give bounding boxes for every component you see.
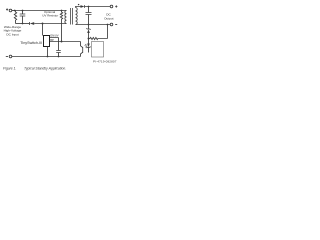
LED emission arrows bbox=[85, 44, 87, 47]
transformer T1 secondary winding bbox=[76, 8, 78, 25]
svg-text:UV Resistor: UV Resistor bbox=[42, 13, 58, 17]
node junction UV on EN wire bbox=[61, 41, 63, 43]
diode D2 output rectifier bbox=[81, 5, 85, 8]
transformer polarity dot bbox=[78, 4, 79, 5]
capacitor C2 output bbox=[86, 7, 92, 25]
node junction bbox=[22, 10, 24, 12]
label TinySwitch bbox=[20, 41, 42, 45]
minus sign input bbox=[6, 56, 8, 58]
node junction feedback bbox=[88, 38, 90, 40]
label DC output bbox=[104, 13, 113, 21]
wire bbox=[12, 10, 14, 12]
node junction drain tap bbox=[42, 23, 44, 25]
label EN/UV pin bbox=[50, 34, 58, 38]
output - terminal bbox=[110, 23, 113, 26]
label optional UV resistor bbox=[42, 10, 58, 17]
node junction bbox=[88, 24, 90, 26]
capacitor C3 bypass bbox=[56, 51, 61, 57]
svg-text:Output: Output bbox=[104, 16, 113, 20]
node junction bbox=[47, 56, 49, 58]
svg-text:TinySwitch-III: TinySwitch-III bbox=[20, 41, 42, 45]
wire top rail bbox=[14, 10, 66, 12]
node junction UV resistor top bbox=[61, 10, 63, 12]
node junction bbox=[107, 24, 109, 26]
node junction bbox=[22, 23, 24, 25]
plus sign output bbox=[115, 5, 117, 7]
node junction bbox=[88, 6, 90, 8]
optocoupler U2 box bbox=[92, 42, 104, 58]
resistor R1 clamp bbox=[14, 11, 16, 24]
wire feedback to minus out bbox=[107, 25, 109, 39]
node junction bbox=[14, 10, 16, 12]
wire BP pin bbox=[50, 38, 59, 51]
wire bottom rail bbox=[12, 56, 81, 58]
wire to D pin bbox=[42, 24, 44, 36]
svg-text:DC Input: DC Input bbox=[6, 32, 18, 36]
input + terminal bbox=[9, 9, 12, 12]
wire EN/UV net bbox=[50, 41, 81, 43]
label PI number bbox=[93, 59, 117, 63]
svg-text:PI-4719-082807: PI-4719-082807 bbox=[93, 59, 117, 63]
resistor R3 feedback bbox=[89, 37, 108, 39]
capacitor C1 clamp bbox=[20, 11, 26, 24]
transformer T1 core bbox=[71, 8, 73, 25]
wire secondary top bbox=[76, 7, 81, 8]
zener VR1 bbox=[86, 25, 90, 39]
svg-text:Typical Standby Application.: Typical Standby Application. bbox=[24, 66, 66, 70]
label wide range input bbox=[4, 25, 22, 36]
resistor R2 UV bbox=[60, 11, 62, 42]
wire bbox=[23, 23, 30, 25]
transistor Q1 opto photo bbox=[81, 42, 83, 57]
label BP pin bbox=[50, 38, 54, 42]
node junction bbox=[58, 56, 60, 58]
svg-text:EN/UV: EN/UV bbox=[50, 34, 58, 38]
output + terminal bbox=[110, 5, 113, 8]
wire secondary bottom bbox=[76, 24, 111, 26]
figure caption bbox=[3, 66, 66, 70]
transformer T1 primary winding bbox=[65, 11, 67, 24]
LED D3 opto bbox=[86, 39, 90, 53]
diode D1 clamp bbox=[30, 22, 35, 25]
minus sign output bbox=[115, 24, 117, 26]
wire drain net bbox=[34, 23, 66, 25]
wire bbox=[16, 23, 23, 25]
input - terminal bbox=[9, 55, 12, 58]
plus sign input bbox=[6, 8, 8, 10]
wire output plus bbox=[85, 6, 111, 8]
svg-text:Figure 1.: Figure 1. bbox=[3, 66, 16, 70]
IC U1 TinySwitch box bbox=[44, 36, 50, 47]
wire S pin bbox=[47, 47, 49, 57]
